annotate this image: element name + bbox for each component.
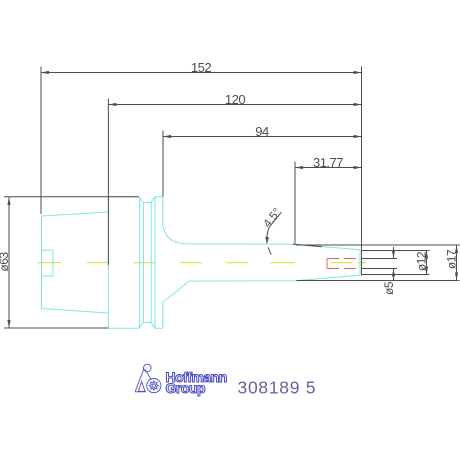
svg-text:ø12: ø12 — [414, 251, 428, 271]
svg-text:308189 5: 308189 5 — [238, 377, 316, 397]
svg-text:31.77: 31.77 — [313, 155, 343, 170]
svg-text:94: 94 — [255, 124, 269, 139]
svg-text:ø17: ø17 — [444, 249, 458, 269]
svg-text:ø63: ø63 — [0, 252, 11, 272]
svg-text:ø5: ø5 — [382, 281, 396, 295]
svg-text:120: 120 — [225, 92, 245, 107]
svg-text:Group: Group — [166, 380, 206, 396]
svg-text:152: 152 — [191, 60, 211, 75]
